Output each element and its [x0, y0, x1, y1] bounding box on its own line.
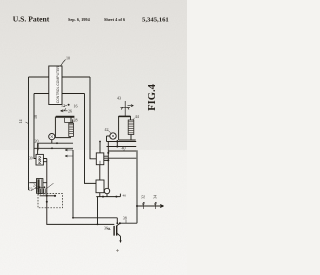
tick on ladder — [116, 140, 118, 147]
box B1 — [96, 153, 104, 165]
circle component left — [49, 134, 55, 140]
wire A right leg — [90, 77, 96, 159]
leader 20 — [37, 144, 40, 151]
component box 30 — [36, 154, 43, 165]
svg-text:Sep. 6, 1994: Sep. 6, 1994 — [68, 17, 91, 22]
left hatched rect small — [69, 123, 74, 136]
left hatched component — [37, 179, 43, 194]
box B1 to B2 connect — [99, 165, 101, 180]
svg-text:46: 46 — [123, 194, 127, 198]
wire: 20 stub to ladder — [37, 143, 39, 154]
leader 12 — [64, 105, 68, 106]
collector diag — [116, 223, 120, 226]
wire: vertical 46.8 — [46, 159, 48, 190]
arrow stub 2 — [65, 155, 73, 157]
svg-text:20: 20 — [35, 139, 39, 144]
thick bar 16 — [56, 116, 75, 118]
tick 18b — [72, 119, 74, 123]
circle component right — [110, 133, 116, 139]
svg-text:43: 43 — [117, 96, 121, 101]
small L — [65, 118, 73, 122]
svg-text:38: 38 — [123, 215, 127, 220]
svg-text:16: 16 — [74, 104, 78, 109]
control computer vertical text — [56, 66, 60, 104]
svg-text:14: 14 — [18, 120, 23, 124]
svg-text:18: 18 — [33, 115, 38, 119]
right bracket — [119, 116, 136, 140]
svg-text:42: 42 — [105, 127, 109, 132]
svg-text:26: 26 — [68, 109, 72, 114]
hatched leads — [29, 182, 47, 184]
wire: mid vertical down — [72, 150, 74, 218]
wire B right leg — [85, 94, 97, 184]
wire inside dashed — [40, 195, 55, 197]
svg-text:36: 36 — [104, 226, 108, 231]
leader 38 — [125, 220, 127, 223]
right vertical down — [136, 150, 138, 223]
small arrow symbol 26 — [61, 108, 68, 112]
arrow stub 1 — [65, 149, 73, 151]
right ladder wires — [107, 141, 137, 143]
left ladder wire 2 — [34, 147, 73, 149]
svg-text:24: 24 — [33, 183, 37, 188]
svg-text:32: 32 — [141, 195, 146, 199]
vertical 108.3 — [107, 142, 109, 189]
antenna arrow — [128, 105, 134, 107]
collector wire — [120, 222, 137, 224]
wire below B2 — [96, 194, 120, 197]
svg-text:44: 44 — [135, 114, 139, 119]
wire: L1 from dashed box to base — [47, 190, 115, 225]
svg-text:Sheet 4 of 6: Sheet 4 of 6 — [104, 17, 126, 22]
control computer box — [49, 66, 62, 105]
wire B1 to ladder — [99, 142, 101, 153]
junction dots — [46, 104, 138, 226]
header row — [13, 15, 169, 24]
box 30 leads right — [43, 159, 46, 162]
wire A top horizontal — [29, 76, 91, 78]
circle bottom left small — [104, 188, 109, 193]
leader 14 — [26, 122, 29, 124]
arrow line right — [137, 205, 164, 208]
svg-text:CONTROL COMPUTER: CONTROL COMPUTER — [56, 66, 60, 104]
tick 32 — [142, 202, 144, 209]
left bracket — [55, 117, 71, 138]
36 arrow — [107, 228, 110, 230]
switch contacts 22/24 — [39, 189, 45, 195]
right antenna symbol — [120, 101, 130, 116]
box B2 — [96, 180, 104, 193]
transistor Q — [114, 226, 117, 236]
wire B top horizontal — [34, 93, 85, 95]
dashed box — [38, 194, 63, 208]
bar to hatched connect — [70, 117, 72, 123]
small labels — [18, 56, 158, 231]
svg-text:34: 34 — [153, 195, 158, 199]
leader 40 — [123, 150, 125, 151]
svg-text:22: 22 — [29, 187, 33, 192]
left ladder wire 1 — [38, 142, 74, 144]
svg-text:30: 30 — [29, 157, 33, 161]
svg-text:12: 12 — [61, 103, 65, 108]
svg-text:28: 28 — [74, 118, 78, 123]
leader 42 — [108, 131, 111, 134]
svg-text:5,345,161: 5,345,161 — [142, 17, 169, 24]
svg-text:U.S. Patent: U.S. Patent — [13, 15, 50, 24]
svg-text:10: 10 — [66, 56, 70, 61]
leader to 10 — [61, 60, 66, 67]
right hatched connect — [130, 116, 132, 120]
svg-text:FIG.4: FIG.4 — [147, 83, 158, 110]
leader 44 — [133, 118, 135, 120]
B2 bottom lead — [99, 193, 101, 197]
wire B left leg — [34, 94, 36, 159]
wire: L2 corner down — [116, 218, 118, 223]
wire: L2 horizontal — [73, 217, 117, 219]
tick 34 — [154, 202, 156, 209]
svg-text:40: 40 — [122, 146, 126, 151]
wire A left leg — [28, 77, 30, 190]
stray scan mark — [116, 249, 119, 252]
FIG.4 label — [147, 83, 158, 110]
right hatched rect — [128, 120, 134, 135]
